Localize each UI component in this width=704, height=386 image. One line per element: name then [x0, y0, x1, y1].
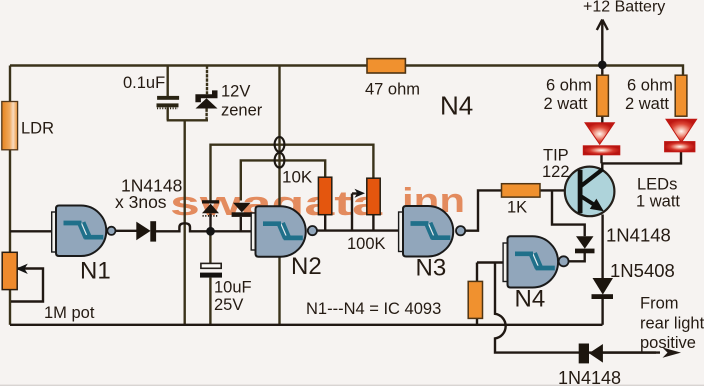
svg-text:12V: 12V: [221, 83, 250, 101]
wire diode 1N4148 bottom to N4 output: [569, 253, 585, 261]
wire N4 input to pull-down resistor: [476, 263, 478, 282]
junction dot at battery node: [598, 61, 607, 70]
wire diode D1 bottom to junction A: [209, 214, 211, 230]
svg-text:47 ohm: 47 ohm: [365, 81, 420, 99]
svg-text:LEDs: LEDs: [637, 176, 677, 194]
wire collector node into transistor: [601, 163, 603, 174]
hop ellipse over feedback wire 1: [275, 137, 285, 152]
wire LED2 bottom across to collector node: [602, 152, 682, 164]
resistor 1K: [502, 184, 541, 197]
diode D2 1N4148 cathode bar: [232, 212, 253, 217]
diode D1 1N4148 cathode bar (top): [202, 200, 219, 203]
wire emitter down to 1N5408: [601, 215, 603, 280]
gate N3: [399, 206, 466, 257]
svg-text:2 watt: 2 watt: [544, 95, 588, 113]
diode 1N5408 triangle: [593, 278, 614, 295]
diode series N1-N2 cathode bar: [150, 221, 156, 241]
transistor emitter arrow head: [590, 199, 604, 212]
svg-text:1N4148: 1N4148: [606, 225, 671, 246]
svg-text:rear light: rear light: [640, 315, 704, 333]
svg-text:N4: N4: [515, 286, 546, 313]
svg-text:0.1uF: 0.1uF: [123, 74, 165, 92]
wire diode D2 bottom to N2 input wire: [240, 217, 242, 231]
wire battery arrow shaft: [601, 22, 603, 63]
wire N1 output to diode: [115, 230, 136, 232]
svg-text:10K: 10K: [282, 168, 313, 187]
svg-text:LDR: LDR: [21, 120, 54, 138]
svg-text:10uF: 10uF: [214, 279, 252, 297]
svg-text:zener: zener: [221, 102, 263, 120]
capacitor 10uF plate 2: [200, 273, 222, 278]
svg-text:6 ohm: 6 ohm: [627, 77, 673, 95]
transistor TIP122 body circle: [565, 167, 615, 217]
wire N3 output up to 1K: [465, 190, 501, 230]
wire pull-down resistor to ground rail: [476, 318, 478, 325]
diode D2 1N4148 triangle: [233, 203, 251, 213]
diode 1N5408 cathode bar: [592, 294, 614, 299]
wire base junction down to diode 1N4148: [552, 190, 585, 236]
rear-light arrow head: [663, 348, 682, 358]
svg-text:1K: 1K: [507, 199, 527, 217]
capacitor 0.1uF plate 1: [157, 96, 179, 100]
svg-text:x 3nos: x 3nos: [115, 192, 167, 212]
wire 10K bottom: [324, 215, 326, 231]
wire ground rail bottom: [10, 324, 603, 326]
transistor collector stroke: [581, 169, 603, 186]
gate N2: [251, 206, 317, 257]
transistor base bar: [578, 170, 583, 213]
resistor N4 pull-down: [468, 281, 482, 318]
wire 0.1uF bottom: [166, 107, 168, 120]
diode 1N4148 (base-N4) cathode bar: [575, 249, 595, 254]
svg-text:N4: N4: [440, 91, 473, 121]
diode D1 1N4148 triangle (pointing up): [202, 204, 219, 214]
svg-text:122: 122: [542, 163, 570, 181]
transistor emitter stroke: [581, 196, 597, 206]
wire 100K wiper branch: [351, 194, 353, 231]
diode 1N4148 (base-N4) triangle: [576, 236, 594, 249]
gate N4: [503, 236, 568, 287]
capacitor 10uF plate 1: [201, 263, 221, 268]
wire cap-zener bottom link: [167, 119, 208, 121]
diode rear-light 1N4148 triangle: [589, 344, 603, 363]
svg-text:1 watt: 1 watt: [636, 193, 680, 211]
wire 100K bottom: [372, 215, 374, 231]
wire 0.1uF top: [166, 66, 168, 97]
LED1 triangle: [585, 123, 614, 144]
wire N4 input node: [477, 261, 503, 263]
capacitor 0.1uF plate 2 fringe: [157, 107, 178, 109]
potentiometer 1M body: [2, 252, 17, 289]
svg-text:6 ohm: 6 ohm: [546, 77, 592, 95]
resistor 6 ohm #1: [597, 75, 609, 116]
svg-text:N1---N4 = IC 4093: N1---N4 = IC 4093: [306, 300, 441, 318]
wire N2 top feedback vertical: [278, 66, 280, 325]
diode D1 fringe: [203, 215, 219, 217]
wire N4 input to rear-light line with hop over ground rail: [495, 263, 656, 353]
zener diode 12V anode triangle: [196, 98, 218, 108]
wire 10uF top: [209, 231, 211, 263]
wire 100K wiper arrow shaft: [352, 192, 358, 194]
wire zener bottom: [205, 109, 207, 121]
wire LED1 bottom to collector node: [600, 155, 602, 164]
svg-text:2 watt: 2 watt: [625, 95, 669, 113]
battery arrow head: [597, 20, 608, 31]
capacitor 0.1uF plate 2: [157, 103, 179, 107]
resistor 10K: [318, 177, 331, 215]
wire LDR to pot: [9, 150, 11, 253]
svg-text:N3: N3: [416, 255, 447, 282]
junction dot at node A: [206, 227, 215, 236]
svg-text:N1: N1: [80, 258, 111, 285]
LDR: [2, 102, 18, 150]
wire LDR/pot tap to N1 input: [10, 230, 52, 232]
potentiometer 100K body: [367, 178, 380, 215]
wire top +12V rail: [10, 66, 683, 76]
wire 1K to TIP122 base: [540, 189, 578, 191]
svg-text:1N4148: 1N4148: [558, 368, 621, 386]
svg-text:1N5408: 1N5408: [610, 260, 675, 281]
svg-text:100K: 100K: [347, 235, 386, 253]
wire zener top: [206, 66, 208, 95]
wire left vertical (LDR/pot branch): [9, 66, 11, 102]
zener diode 12V cathode Z-bar: [195, 90, 217, 102]
LED2 triangle: [666, 119, 697, 142]
svg-text:From: From: [640, 295, 679, 313]
gate N1: [52, 206, 116, 257]
resistor 47 ohm: [367, 59, 405, 73]
wire battery dot to 6 ohm R1: [601, 65, 603, 76]
wire pot bottom to ground rail: [9, 288, 11, 325]
svg-text:N2: N2: [291, 253, 322, 280]
svg-text:1M pot: 1M pot: [44, 304, 95, 322]
wire N2 output to N3 input: [317, 229, 399, 231]
wire rear-light line right of diode (to arrow): [603, 351, 660, 353]
diode rear-light 1N4148 cathode bar: [579, 344, 589, 364]
100K wiper arrow head: [355, 189, 366, 198]
hop ellipse over feedback wire 2: [275, 153, 285, 168]
wire LED1 top (from 6 ohm R): [601, 116, 603, 124]
LED1 cathode bar: [583, 146, 620, 155]
wire feedback to 100K (from diode D1 top): [211, 145, 374, 201]
wire zener/cap node to ground rail: [183, 120, 185, 324]
svg-text:TIP: TIP: [543, 147, 569, 165]
wire feedback to 10K (from diode D2 top): [241, 160, 325, 200]
svg-text:+12 Battery: +12 Battery: [583, 0, 665, 16]
wire junction A to N2 input: [214, 230, 251, 232]
svg-text:25V: 25V: [214, 296, 243, 314]
wire pot wiper: [11, 269, 43, 302]
diode series N1-N2 triangle: [136, 222, 150, 241]
wire diode to junction A with hop over vertical: [156, 223, 207, 231]
wire 10uF bottom to ground rail: [209, 278, 211, 325]
resistor 6 ohm #2: [675, 75, 687, 116]
wire 1N5408 to ground rail: [601, 298, 603, 325]
LED2 cathode bar: [665, 142, 696, 152]
1M pot wiper arrow head: [16, 264, 28, 274]
svg-text:positive: positive: [640, 334, 696, 352]
